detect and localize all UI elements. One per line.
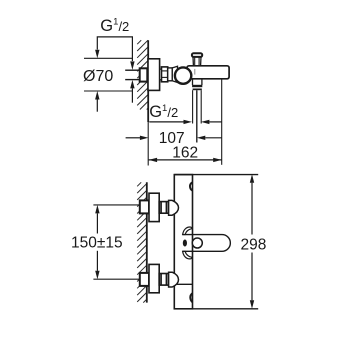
G1/2 pipe dimension arrows <box>130 61 134 70</box>
Ø70 dimension arrows <box>95 50 99 59</box>
bottom wall surface line <box>146 182 148 302</box>
shower outlet below body <box>192 79 202 90</box>
lever top flare <box>183 227 192 235</box>
top arc detail on body edge <box>190 182 193 191</box>
top wall hatch <box>137 40 148 109</box>
107 dimension row <box>126 137 140 139</box>
body (top view) <box>187 66 229 79</box>
safety button dot <box>183 240 187 247</box>
spacer ring <box>168 68 173 81</box>
diverter knob on body top <box>192 53 202 65</box>
hex union nut (top view) <box>162 67 168 82</box>
lever rounded end <box>222 235 230 252</box>
top connection: thread <box>159 202 168 214</box>
G1/2 connector line <box>97 37 132 61</box>
connector ring <box>160 69 162 80</box>
body-end extension line (162) <box>221 79 223 165</box>
svg-text:Ø70: Ø70 <box>83 68 113 85</box>
svg-text:298: 298 <box>241 237 267 254</box>
bottom wall hatch <box>137 182 146 302</box>
150 dim top extension / supply line <box>93 204 140 206</box>
spout divider line <box>174 283 192 285</box>
bottom connection: union cap <box>169 272 179 287</box>
bottom arc detail on body edge <box>190 293 192 302</box>
162 dimension row <box>149 159 222 161</box>
svg-text:162: 162 <box>172 145 198 162</box>
body top edge extended to 298 dim <box>174 174 258 176</box>
top connection: wall nut <box>140 200 149 213</box>
top connection: union cap <box>169 200 179 215</box>
bottom connection: escutcheon <box>149 264 159 292</box>
bottom connection: thread <box>159 274 168 286</box>
wall extension line (dims 107/162) <box>147 122 149 166</box>
bottom connection: wall nut <box>140 273 149 286</box>
298 dimension <box>250 174 254 183</box>
top wall surface line <box>147 40 149 122</box>
cone to handle <box>172 66 177 82</box>
outlet centerline extension <box>196 90 198 142</box>
lever bottom flare <box>183 251 192 259</box>
lever hole circle <box>192 238 202 248</box>
svg-text:150±15: 150±15 <box>71 235 123 252</box>
outlet G1/2 dimension row <box>149 121 185 123</box>
lever top edge <box>182 234 222 236</box>
escutcheon (top view) <box>148 59 160 91</box>
supply pipe stub (top view) <box>125 69 140 71</box>
diverter stem detail <box>194 69 196 75</box>
outlet thread extension lines <box>192 90 194 123</box>
wall nut (top view) <box>140 68 148 81</box>
body bottom edge extended to 298 dim <box>174 308 258 310</box>
lever bottom edge <box>182 250 222 252</box>
150±15 dimension <box>95 205 99 214</box>
150 dim bottom extension / supply line <box>93 278 140 280</box>
top connection: escutcheon <box>149 193 159 221</box>
body (front/rotated view) <box>174 175 192 309</box>
thermostat handle circle <box>175 67 191 83</box>
Ø70 extension lines <box>84 57 132 59</box>
